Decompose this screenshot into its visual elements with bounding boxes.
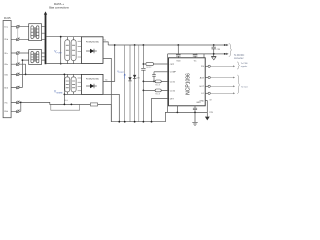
resistor RCLS2 (143, 89, 168, 95)
bridge U1 (78, 37, 103, 64)
wire AUX output (205, 76, 235, 78)
wire connector pins with contact circles (11, 27, 29, 112)
svg-text:PORT: PORT (119, 72, 124, 74)
diode pair D4 (71, 74, 76, 94)
svg-text:signals: signals (241, 66, 247, 68)
wire lower rail (111, 112, 168, 121)
brace PG (237, 62, 240, 69)
connector J1 RJ45 (3, 16, 11, 118)
wire group2 left vertical (63, 74, 65, 104)
svg-text:DET: DET (170, 98, 175, 100)
ground chassis arrow (205, 117, 210, 121)
wire group1 left vertical (60, 37, 62, 64)
svg-text:7Sc: 7Sc (4, 102, 8, 104)
TVS D5 (128, 45, 131, 122)
diode pair D3 (65, 74, 70, 94)
svg-text:GND: GND (196, 102, 201, 104)
wire group1 top (46, 36, 81, 38)
wire bridge2 plus output (103, 45, 115, 81)
capacitor C5 (193, 55, 198, 58)
capacitor C1 output (212, 45, 221, 54)
wire ground top run (168, 54, 214, 113)
wire group2 bottom (64, 93, 81, 95)
wire pins 7-8 tie (20, 102, 22, 111)
capacitor C6 (193, 106, 197, 113)
op-amp U3 NCP1096 (169, 58, 206, 106)
transformer T1 (29, 24, 45, 41)
svg-text:CIN: CIN (217, 49, 221, 51)
ground earth (192, 112, 197, 125)
svg-text:Bias connections: Bias connections (49, 6, 69, 10)
wire pair links (17, 28, 19, 63)
svg-text:PG: PG (201, 66, 204, 68)
svg-text:converter: converter (234, 57, 244, 60)
ground top right (211, 54, 216, 60)
wire bridge2 minus output (103, 94, 119, 121)
wire HOT output (205, 85, 235, 87)
svg-text:3Dc: 3Dc (4, 53, 8, 55)
svg-text:RTN: RTN (209, 112, 213, 114)
wire group2 top (pins 4/5) (26, 73, 82, 75)
svg-text:HOT: HOT (200, 86, 205, 88)
wire bridge1 minus output (103, 58, 111, 121)
svg-text:OPP: OPP (170, 64, 175, 66)
wire DET pin (152, 99, 169, 122)
bridge U2 (78, 74, 103, 94)
node To DC/DC text (234, 55, 245, 60)
svg-text:NCP1096: NCP1096 (186, 73, 192, 95)
node VPORT annotation line (124, 45, 126, 122)
resistor RCLS1 (143, 80, 168, 86)
fuse F1 (90, 103, 97, 106)
capacitor C4 (176, 55, 181, 58)
diode pair D2 (71, 37, 76, 64)
svg-text:To DC/DC: To DC/DC (234, 55, 245, 57)
wire LO output (205, 92, 235, 94)
wire pin 6 riser to T2 (22, 60, 28, 87)
svg-text:CLS1: CLS1 (170, 81, 176, 83)
svg-text:RCLS: RCLS (155, 93, 161, 95)
svg-text:SPARE: SPARE (56, 91, 63, 94)
wire bottom pin 1 (176, 106, 178, 113)
wire GND pin to chassis (205, 101, 207, 117)
svg-text:DATA +: DATA + (54, 2, 64, 6)
svg-text:FDMQ8025A: FDMQ8025A (86, 78, 99, 81)
svg-text:PORT: PORT (57, 52, 63, 54)
svg-text:RJ45: RJ45 (4, 16, 11, 20)
brace output (229, 43, 232, 56)
node DATA/Bias annotation (49, 2, 69, 9)
svg-text:To PSE: To PSE (241, 63, 249, 65)
svg-text:COMP: COMP (170, 72, 177, 74)
wire RTN rail (214, 53, 227, 55)
svg-text:LO: LO (201, 93, 204, 95)
wire aux vertical (138, 45, 140, 122)
wire center-tap bus bar (44, 11, 47, 64)
svg-text:ROPP: ROPP (146, 67, 152, 69)
wire VDD riser (177, 45, 179, 54)
capacitor C3 (152, 72, 156, 82)
wire pins 7/8 run (21, 102, 112, 121)
TVS D6 (133, 45, 141, 122)
diode pair D1 (65, 37, 70, 64)
svg-text:FDMQ8025A: FDMQ8025A (86, 41, 99, 44)
wire VPORT+ top rail (108, 44, 227, 46)
wire group1 bottom (46, 63, 81, 65)
wire IC bottom rail (169, 111, 208, 113)
svg-text:VDD: VDD (176, 60, 181, 62)
svg-text:To host: To host (241, 86, 248, 89)
brace signals (237, 75, 240, 94)
wire PG output (205, 65, 235, 67)
node VPORT label 2 (54, 90, 63, 95)
svg-text:CLS2: CLS2 (170, 90, 176, 92)
wire pins 4-5 tie (25, 64, 27, 74)
svg-text:RCLS: RCLS (155, 84, 161, 86)
wire parallel stub (51, 104, 80, 110)
wire sense vertical (142, 45, 144, 122)
capacitor C2 (141, 68, 145, 70)
resistor ROPP (143, 63, 168, 69)
wire bridge1 plus output (103, 42, 108, 45)
node VPORT label 1 (54, 50, 62, 55)
svg-text:AUX: AUX (200, 76, 205, 79)
transformer T2 (29, 50, 45, 65)
wire COMP pin (154, 71, 169, 73)
